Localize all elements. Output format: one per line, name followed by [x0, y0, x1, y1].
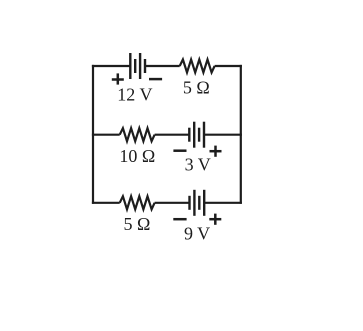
svg-text:5 Ω: 5 Ω	[123, 214, 150, 234]
svg-text:9 V: 9 V	[184, 224, 210, 244]
svg-text:5 Ω: 5 Ω	[183, 78, 210, 98]
svg-text:10 Ω: 10 Ω	[119, 146, 155, 166]
svg-text:12 V: 12 V	[117, 84, 152, 104]
svg-text:3 V: 3 V	[185, 154, 211, 174]
